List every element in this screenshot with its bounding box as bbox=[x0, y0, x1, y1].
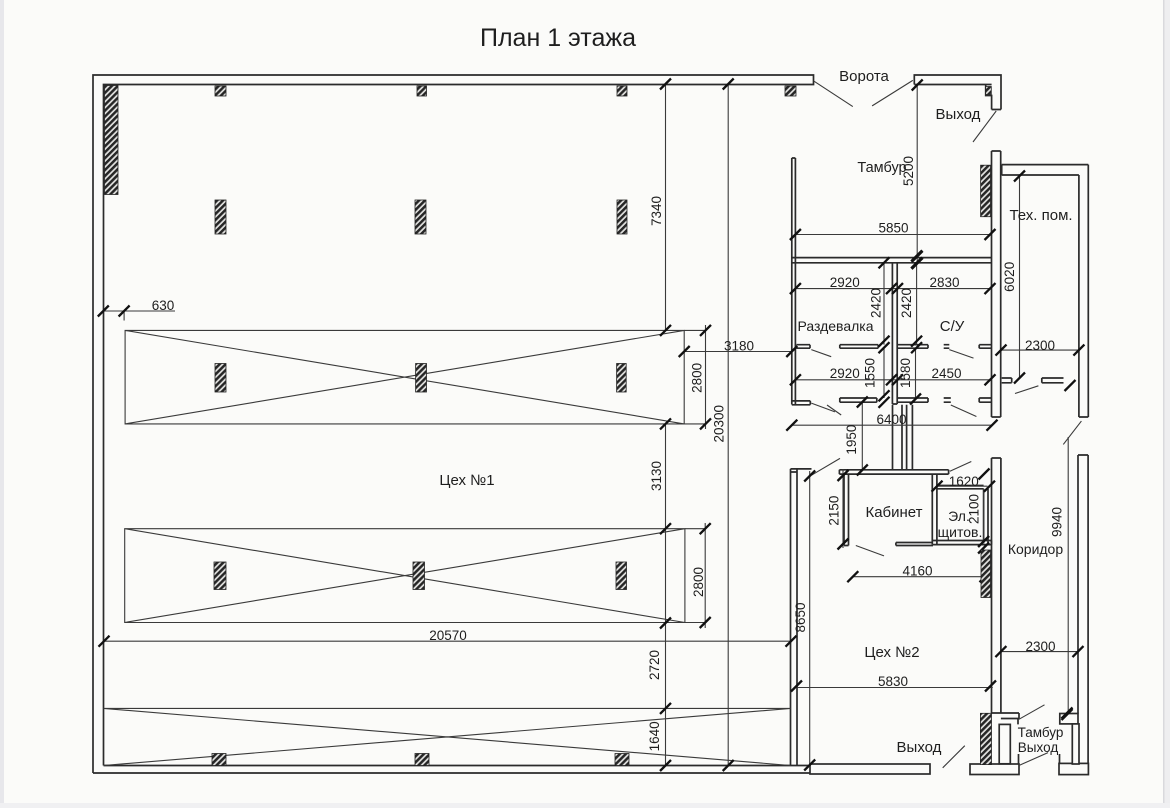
dim 8650 line bbox=[809, 471, 811, 768]
tambour left wall (tsekh1 side) bbox=[792, 158, 796, 405]
column bottom row 3 bbox=[615, 754, 629, 766]
svg-text:Цех №2: Цех №2 bbox=[864, 644, 919, 661]
column rack1 row 2 bbox=[416, 364, 427, 393]
dim 2300 top ticks bbox=[996, 345, 1085, 356]
el.shchitov top wall bbox=[937, 486, 984, 489]
razdevalka bottom-left L-return bbox=[792, 401, 811, 405]
kabinet left wall bbox=[844, 474, 849, 545]
dim 2420 left line bbox=[883, 263, 885, 345]
column top row 4 bbox=[785, 86, 796, 96]
svg-text:7340: 7340 bbox=[649, 196, 664, 226]
dim 630 bbox=[103, 311, 175, 321]
dim 1580 line bbox=[915, 348, 917, 398]
rack row 1 (crossed rect) bbox=[125, 330, 684, 424]
door swing row2 left bbox=[827, 405, 841, 415]
wall strip tambour-right / block right upper bbox=[992, 151, 1001, 417]
svg-text:2150: 2150 bbox=[827, 496, 842, 526]
svg-text:3130: 3130 bbox=[649, 461, 664, 491]
exit door leaf top-right bbox=[973, 111, 996, 142]
exit vestibule top-right inner step bbox=[986, 85, 1001, 110]
corridor left wall bbox=[992, 458, 1001, 713]
column top row 2 bbox=[417, 86, 427, 96]
tech room door swing bbox=[1015, 386, 1038, 394]
bottom wall piece B bbox=[970, 764, 1019, 775]
tech door tick bbox=[1065, 380, 1076, 391]
svg-text:Кабинет: Кабинет bbox=[865, 504, 922, 521]
column rack1 row 3 bbox=[617, 364, 627, 393]
dim row 2920/2830 line bbox=[795, 288, 990, 290]
dim 2300 bottom ticks bbox=[995, 646, 1083, 657]
su door swing row1 bbox=[949, 350, 973, 359]
svg-text:Раздевалка: Раздевалка bbox=[797, 318, 873, 334]
bottom wall thick piece A bbox=[810, 764, 930, 774]
dim 4160 line bbox=[853, 576, 985, 578]
svg-text:2420: 2420 bbox=[869, 288, 884, 318]
column bottom row 1 bbox=[212, 754, 226, 766]
svg-text:Выход: Выход bbox=[1018, 740, 1059, 755]
block top wall bbox=[792, 258, 992, 263]
dim chain 3130/2720/1640 line bbox=[665, 424, 667, 766]
dim 3180 ticks bbox=[679, 346, 798, 357]
dim 1620 line bbox=[937, 485, 988, 487]
column mid row 2 bbox=[415, 200, 426, 234]
tsekh2 left wall bbox=[791, 469, 812, 766]
svg-text:Коридор: Коридор bbox=[1008, 541, 1064, 557]
tambour-exit right cap bbox=[1060, 714, 1078, 724]
outer wall top-left segment bbox=[93, 75, 814, 773]
svg-text:Тамбур: Тамбур bbox=[857, 160, 906, 176]
dim 6400 ticks bbox=[786, 420, 997, 431]
svg-text:2100: 2100 bbox=[967, 494, 982, 524]
column rack1 row 1 bbox=[215, 364, 226, 393]
svg-text:С/У: С/У bbox=[940, 318, 965, 335]
dim 5850 line bbox=[795, 234, 990, 236]
svg-text:2800: 2800 bbox=[690, 363, 705, 393]
svg-text:2420: 2420 bbox=[899, 288, 914, 318]
dim row 2920/2450 ticks bbox=[790, 374, 996, 385]
dim 2420L ticks bbox=[879, 257, 890, 353]
dim 1550 line bbox=[883, 348, 885, 398]
dim 2800 rect2 ticks bbox=[700, 523, 711, 628]
tambour-exit bottom door swing bbox=[1019, 753, 1048, 766]
dim 1950 ticks bbox=[857, 397, 868, 476]
svg-text:6400: 6400 bbox=[876, 412, 906, 427]
dim 2420 right line bbox=[916, 263, 918, 345]
column bottom row 2 bbox=[415, 754, 429, 766]
el.shchitov bottom wall bbox=[933, 541, 991, 545]
dim 7340 ticks bbox=[660, 79, 671, 336]
tech room top wall bbox=[1002, 165, 1089, 175]
dim 2100 ticks bbox=[978, 536, 989, 554]
dim 2800 rect1 line bbox=[684, 325, 705, 429]
svg-text:9940: 9940 bbox=[1050, 507, 1065, 537]
dim 2150 ref line bbox=[842, 469, 844, 548]
dim 9940 line bbox=[1067, 437, 1069, 713]
column mid row 3 bbox=[617, 200, 627, 234]
el.shchitov leader bbox=[950, 462, 971, 472]
svg-text:Выход: Выход bbox=[897, 739, 942, 756]
tech room bottom wall w/ door bbox=[1002, 378, 1064, 383]
svg-text:Тех. пом.: Тех. пом. bbox=[1009, 207, 1072, 224]
dim 5850 ticks bbox=[790, 229, 996, 240]
corridor opening swing right bbox=[1063, 421, 1081, 444]
column mid row 1 bbox=[215, 200, 226, 234]
dim 5200 line bbox=[916, 84, 918, 263]
svg-text:2830: 2830 bbox=[929, 275, 959, 290]
svg-text:1580: 1580 bbox=[898, 358, 913, 388]
svg-text:5830: 5830 bbox=[878, 674, 908, 689]
svg-text:Цех №1: Цех №1 bbox=[439, 472, 494, 489]
svg-text:1640: 1640 bbox=[647, 721, 662, 751]
chain 3130/2720/1640 ticks bbox=[660, 418, 671, 771]
outer wall bottom bbox=[93, 766, 930, 774]
block middle wall bbox=[892, 263, 897, 404]
dim 6020 ticks bbox=[1014, 171, 1025, 384]
tambour-exit right cap tick bbox=[1062, 708, 1073, 719]
dim 2150 ticks bbox=[838, 470, 849, 550]
rack row 3 (crossed band at bottom) bbox=[104, 708, 791, 765]
dim 2100 line bbox=[983, 489, 985, 544]
dim 5830 line bbox=[796, 687, 993, 689]
svg-text:4160: 4160 bbox=[902, 564, 932, 579]
pier top-left bbox=[105, 86, 119, 195]
tambour-exit left bar bbox=[999, 724, 1010, 763]
dim 6020 line bbox=[1019, 176, 1021, 378]
rack row 2 (crossed rect) bbox=[125, 529, 685, 623]
svg-text:Ворота: Ворота bbox=[839, 68, 889, 85]
pier right tech bbox=[981, 165, 991, 217]
svg-text:5200: 5200 bbox=[901, 156, 916, 186]
svg-text:Тамбур: Тамбур bbox=[1018, 725, 1064, 740]
kabinet bottom wall bbox=[896, 543, 933, 546]
exit bottom leader bbox=[943, 746, 965, 768]
door swing row2 right bbox=[951, 405, 977, 417]
svg-text:План 1 этажа: План 1 этажа bbox=[480, 24, 636, 52]
svg-text:1620: 1620 bbox=[949, 474, 979, 489]
dim 1950 line bbox=[861, 402, 863, 470]
dim 5200 ticks bbox=[912, 80, 923, 270]
svg-text:1950: 1950 bbox=[844, 425, 859, 455]
svg-text:3180: 3180 bbox=[724, 339, 754, 354]
svg-text:2920: 2920 bbox=[830, 275, 860, 290]
corridor left wall end cap bbox=[992, 713, 1020, 724]
dim 3180 line bbox=[684, 351, 792, 353]
dim 20570 ticks bbox=[99, 636, 797, 647]
razdevalka lower door swing bbox=[811, 403, 835, 412]
column rack2 row 1 bbox=[214, 562, 226, 590]
dim 2300 top line bbox=[1001, 349, 1079, 351]
dim 9940 bottom tick bbox=[1062, 709, 1073, 720]
dim 1580 ticks bbox=[910, 394, 921, 405]
block partition row1 bbox=[797, 345, 993, 349]
dim 630 ticks bbox=[98, 306, 130, 317]
tambour-exit bottom-right piece bbox=[1059, 763, 1088, 774]
gate leader left bbox=[814, 81, 853, 106]
svg-text:щитов.: щитов. bbox=[938, 524, 983, 540]
pier bottom-right bbox=[980, 713, 991, 764]
dim 20570 line bbox=[104, 640, 791, 642]
dim 5830 ticks bbox=[791, 681, 996, 692]
dim row 2920/2830 ticks bbox=[790, 283, 996, 294]
tambour-exit top door swing bbox=[1019, 705, 1045, 720]
tech room right wall bbox=[1079, 165, 1088, 417]
dim 4160 ticks bbox=[847, 571, 990, 582]
el.shchitov right wall bbox=[984, 489, 988, 544]
svg-text:6020: 6020 bbox=[1002, 262, 1017, 292]
block partition row2 bbox=[840, 398, 992, 402]
svg-text:2300: 2300 bbox=[1025, 338, 1055, 353]
tsekh2 wall top door swing bbox=[812, 458, 841, 475]
column top row 3 bbox=[617, 86, 627, 96]
svg-text:630: 630 bbox=[152, 298, 175, 313]
svg-text:2920: 2920 bbox=[830, 366, 860, 381]
tambour-exit right bar bbox=[1072, 724, 1079, 764]
column rack2 row 2 bbox=[413, 562, 425, 590]
svg-text:2720: 2720 bbox=[647, 650, 662, 680]
svg-text:20570: 20570 bbox=[429, 628, 467, 643]
dim 2800 rect2 line bbox=[685, 523, 705, 628]
kabinet top wall bbox=[839, 470, 948, 474]
svg-text:2300: 2300 bbox=[1025, 639, 1055, 654]
duct walls between block and kabinet bbox=[893, 405, 913, 470]
pier right corridor bbox=[981, 550, 991, 598]
gate leader right bbox=[872, 80, 913, 106]
dim 2420R ticks bbox=[911, 250, 922, 353]
corridor right wall lower bbox=[1078, 455, 1088, 775]
kabinet door swing bbox=[856, 546, 884, 556]
column rack2 row 3 bbox=[616, 562, 627, 590]
dim 2300 bottom line bbox=[1001, 651, 1078, 653]
svg-text:1550: 1550 bbox=[863, 358, 878, 388]
outer wall top-right segment over gate bbox=[914, 75, 1001, 110]
svg-text:2450: 2450 bbox=[931, 366, 961, 381]
dim 7340 line bbox=[665, 84, 667, 330]
svg-text:8650: 8650 bbox=[793, 602, 808, 632]
tambour-exit bottom door jambs bbox=[1019, 754, 1060, 764]
dim row 2920/2450 line bbox=[795, 379, 990, 381]
svg-text:2800: 2800 bbox=[691, 567, 706, 597]
dim 1550 ticks bbox=[879, 390, 890, 408]
svg-text:Выход: Выход bbox=[936, 106, 981, 123]
dim 8650 ticks bbox=[804, 471, 815, 771]
dim 1620 ticks bbox=[932, 469, 996, 492]
dim 6400 line bbox=[792, 424, 992, 426]
column top row 1 bbox=[215, 86, 226, 96]
dim 20300 ticks bbox=[723, 79, 734, 772]
svg-text:5850: 5850 bbox=[878, 221, 908, 236]
column top-right corner bbox=[986, 87, 992, 95]
svg-text:20300: 20300 bbox=[712, 405, 727, 443]
kabinet/el.shchitov shared wall bbox=[932, 474, 937, 544]
dim 2800 rect1 ticks bbox=[700, 325, 711, 430]
razdevalka door swing row1 bbox=[811, 350, 831, 357]
dim 20300 line bbox=[727, 84, 729, 766]
